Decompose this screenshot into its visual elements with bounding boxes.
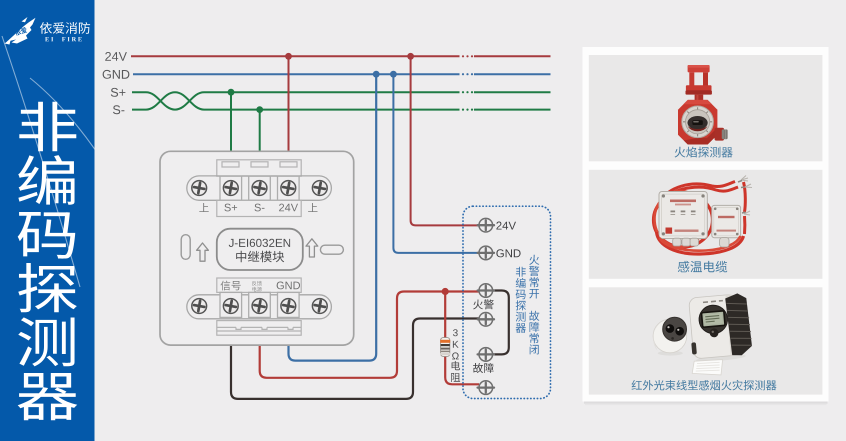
wire S+ drop to module bbox=[230, 92, 232, 163]
module terminal box 信号 bbox=[220, 292, 242, 317]
screws top row bbox=[192, 181, 327, 196]
junction on 24V bus at module bbox=[285, 53, 292, 60]
logo EI FIRE icon bbox=[5, 17, 36, 45]
terminal label 故障 bbox=[473, 363, 494, 373]
logo icon inner text bbox=[14, 27, 27, 36]
wire S- bus (green, twisted pair) bbox=[132, 92, 551, 109]
label S- bbox=[255, 204, 265, 212]
product flame detector photo bbox=[678, 65, 728, 145]
terminal fault - bbox=[478, 381, 494, 395]
junction on S- bus bbox=[256, 106, 263, 113]
terminal GND bbox=[478, 246, 494, 260]
label 上 right bbox=[308, 203, 317, 212]
terminal label 24V bbox=[496, 222, 516, 230]
terminal fault + bbox=[478, 348, 494, 362]
module terminal stadium top row bbox=[187, 176, 332, 200]
wire S- drop to module bbox=[259, 110, 261, 163]
note 非编码探测器 (vertical) bbox=[516, 267, 526, 333]
label S- bbox=[113, 105, 124, 114]
module right pill bbox=[320, 245, 343, 254]
label S+ bbox=[111, 88, 126, 97]
wire GND bus (blue) bbox=[133, 73, 551, 75]
label 24V bbox=[105, 52, 127, 61]
module bottom connector strip bbox=[217, 321, 301, 336]
wire 24V bus (red) bbox=[131, 55, 551, 57]
module top connector strip bbox=[217, 160, 301, 176]
label GND bbox=[103, 70, 130, 79]
label 24V bbox=[279, 204, 298, 212]
wire feedback power (red) from module bbox=[260, 292, 479, 378]
wire 24V drop to module bbox=[288, 56, 290, 163]
resistor label 3K ohm 电阻 bbox=[451, 329, 460, 382]
label GND bbox=[277, 282, 300, 290]
logo text EI FIRE bbox=[45, 37, 82, 41]
wire EOL branch (red) through resistor to fault terminal bbox=[445, 292, 479, 385]
label 信号 bbox=[221, 281, 241, 291]
junction node fire+ (red) bbox=[442, 288, 449, 295]
relay module U1 outline bbox=[160, 151, 354, 345]
terminal fire + bbox=[478, 284, 494, 298]
sidebar panel bbox=[0, 0, 110, 441]
detector terminal box (dashed) bbox=[463, 206, 551, 398]
terminal label GND bbox=[496, 249, 520, 257]
junction on GND bus to detector box bbox=[390, 71, 397, 78]
product card 1 background bbox=[589, 55, 823, 161]
module right arrow bbox=[306, 239, 318, 257]
caption 感温电缆 bbox=[678, 261, 727, 273]
module top labels box bbox=[217, 200, 301, 216]
module name text 中继模块 bbox=[236, 251, 284, 262]
junction on 24V bus to detector box bbox=[407, 53, 414, 60]
product card 2 background bbox=[589, 170, 823, 279]
wire GND (blue) from module up to GND bus bbox=[289, 74, 377, 360]
terminal label 火警 bbox=[473, 299, 494, 309]
module terminal box S+ bbox=[220, 176, 242, 200]
terminal fire - bbox=[478, 313, 494, 327]
product heat cable photo bbox=[654, 176, 753, 255]
module terminal stadium bottom row bbox=[187, 295, 332, 319]
module left pill bbox=[181, 235, 190, 260]
wire GND bus to detector GND terminal bbox=[393, 74, 479, 253]
module bottom labels box bbox=[217, 278, 301, 292]
screws bottom row bbox=[192, 299, 327, 314]
caption 火焰探测器 bbox=[675, 147, 733, 158]
resistor R-EOL 3K ohm bbox=[440, 338, 450, 357]
label S+ bbox=[224, 204, 237, 212]
label 上 left bbox=[199, 203, 208, 212]
wire link fire+ to fault+ (black) bbox=[492, 291, 509, 355]
wire 24V bus to detector 24V terminal bbox=[411, 56, 479, 225]
wire S+ bus (green, twisted pair) bbox=[132, 92, 551, 109]
caption 红外光束线型感烟火灾探测器 bbox=[632, 380, 777, 391]
module terminal box 24V bbox=[278, 176, 300, 200]
label 反馈电源 (tiny) bbox=[252, 281, 262, 292]
note 故障常闭 (vertical) bbox=[529, 311, 539, 355]
junction on S+ bus bbox=[228, 89, 235, 96]
module left arrow bbox=[197, 243, 209, 261]
note 火警常开 (vertical) bbox=[529, 255, 539, 299]
product beam detector photo bbox=[653, 293, 753, 375]
module terminal box GND bbox=[278, 292, 300, 317]
module center plate J-EI6032EN bbox=[217, 229, 303, 270]
sidebar vertical title 非编码探测器 bbox=[18, 102, 78, 421]
junction on GND bus (module branch) bbox=[373, 71, 380, 78]
logo text 依爱消防 bbox=[40, 22, 90, 34]
module terminal box 反馈电源 bbox=[249, 292, 271, 317]
product card 3 background bbox=[589, 287, 823, 394]
terminal 24V bbox=[478, 218, 494, 232]
module name text J-EI6032EN bbox=[229, 239, 290, 247]
wire signal (black) from module to detector bbox=[231, 319, 479, 399]
product panel bbox=[583, 47, 829, 405]
module terminal box S- bbox=[249, 176, 271, 200]
